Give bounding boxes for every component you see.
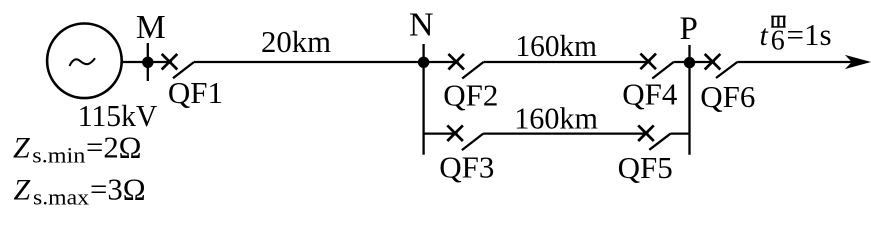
breaker QF4 blade slash <box>652 62 673 79</box>
wire QF1 to node N (20km line) <box>194 61 459 63</box>
wire QF6 to output arrow <box>737 61 861 63</box>
svg-text:P: P <box>680 11 698 47</box>
breaker QF2 contact X <box>448 54 464 70</box>
svg-text:=3Ω: =3Ω <box>90 172 146 207</box>
svg-text:M: M <box>136 9 166 46</box>
breaker QF1 contact X <box>162 54 178 70</box>
svg-text:QF3: QF3 <box>439 149 494 184</box>
breaker QF6 contact X <box>705 54 721 70</box>
wire generator to node M <box>122 61 172 63</box>
breaker QF3 blade slash <box>462 134 483 151</box>
node P vertical bus <box>688 45 690 155</box>
svg-text:6: 6 <box>771 26 785 57</box>
breaker QF2 blade slash <box>462 62 483 79</box>
svg-text:115kV: 115kV <box>78 98 158 133</box>
wire QF5 to node P bus <box>671 132 690 134</box>
wire N down-branch to QF3 (bottom line start) <box>424 132 458 134</box>
svg-text:N: N <box>409 6 434 43</box>
svg-text:s.min: s.min <box>32 143 85 168</box>
node M vertical tick <box>147 43 149 81</box>
svg-text:Z: Z <box>13 132 30 165</box>
svg-text:20km: 20km <box>261 24 331 59</box>
node M junction dot <box>142 57 153 68</box>
wire QF4 to node P and on to QF6 <box>674 61 715 63</box>
breaker QF1 blade slash <box>173 62 194 78</box>
generator source circle <box>47 24 122 99</box>
wire QF3 to QF5 (bottom 160km line) <box>483 132 648 134</box>
svg-text:t: t <box>760 19 769 52</box>
svg-text:s.max: s.max <box>33 185 89 210</box>
generator sine symbol <box>70 58 96 66</box>
svg-text:160km: 160km <box>516 28 598 63</box>
svg-text:=2Ω: =2Ω <box>86 130 142 165</box>
breaker QF3 contact X <box>447 125 463 141</box>
svg-text:QF5: QF5 <box>618 150 673 185</box>
breaker QF4 contact X <box>640 54 656 70</box>
breaker QF6 blade slash <box>716 62 737 78</box>
svg-text:Z: Z <box>14 174 31 207</box>
node N junction dot <box>418 57 429 68</box>
wire QF2 to QF4 (top 160km line) <box>484 61 651 63</box>
node P junction dot <box>684 57 695 68</box>
node N vertical bus <box>422 44 424 155</box>
label t6 superscript III (roman numeral) <box>771 16 785 28</box>
breaker QF5 contact X <box>638 125 654 141</box>
breaker QF5 blade slash <box>649 134 670 150</box>
svg-text:QF2: QF2 <box>443 77 498 112</box>
svg-text:QF6: QF6 <box>700 79 755 114</box>
svg-text:QF1: QF1 <box>168 75 223 110</box>
svg-text:160km: 160km <box>514 100 598 135</box>
svg-text:=1s: =1s <box>787 17 832 52</box>
output arrowhead <box>847 56 870 68</box>
svg-text:QF4: QF4 <box>622 77 678 112</box>
